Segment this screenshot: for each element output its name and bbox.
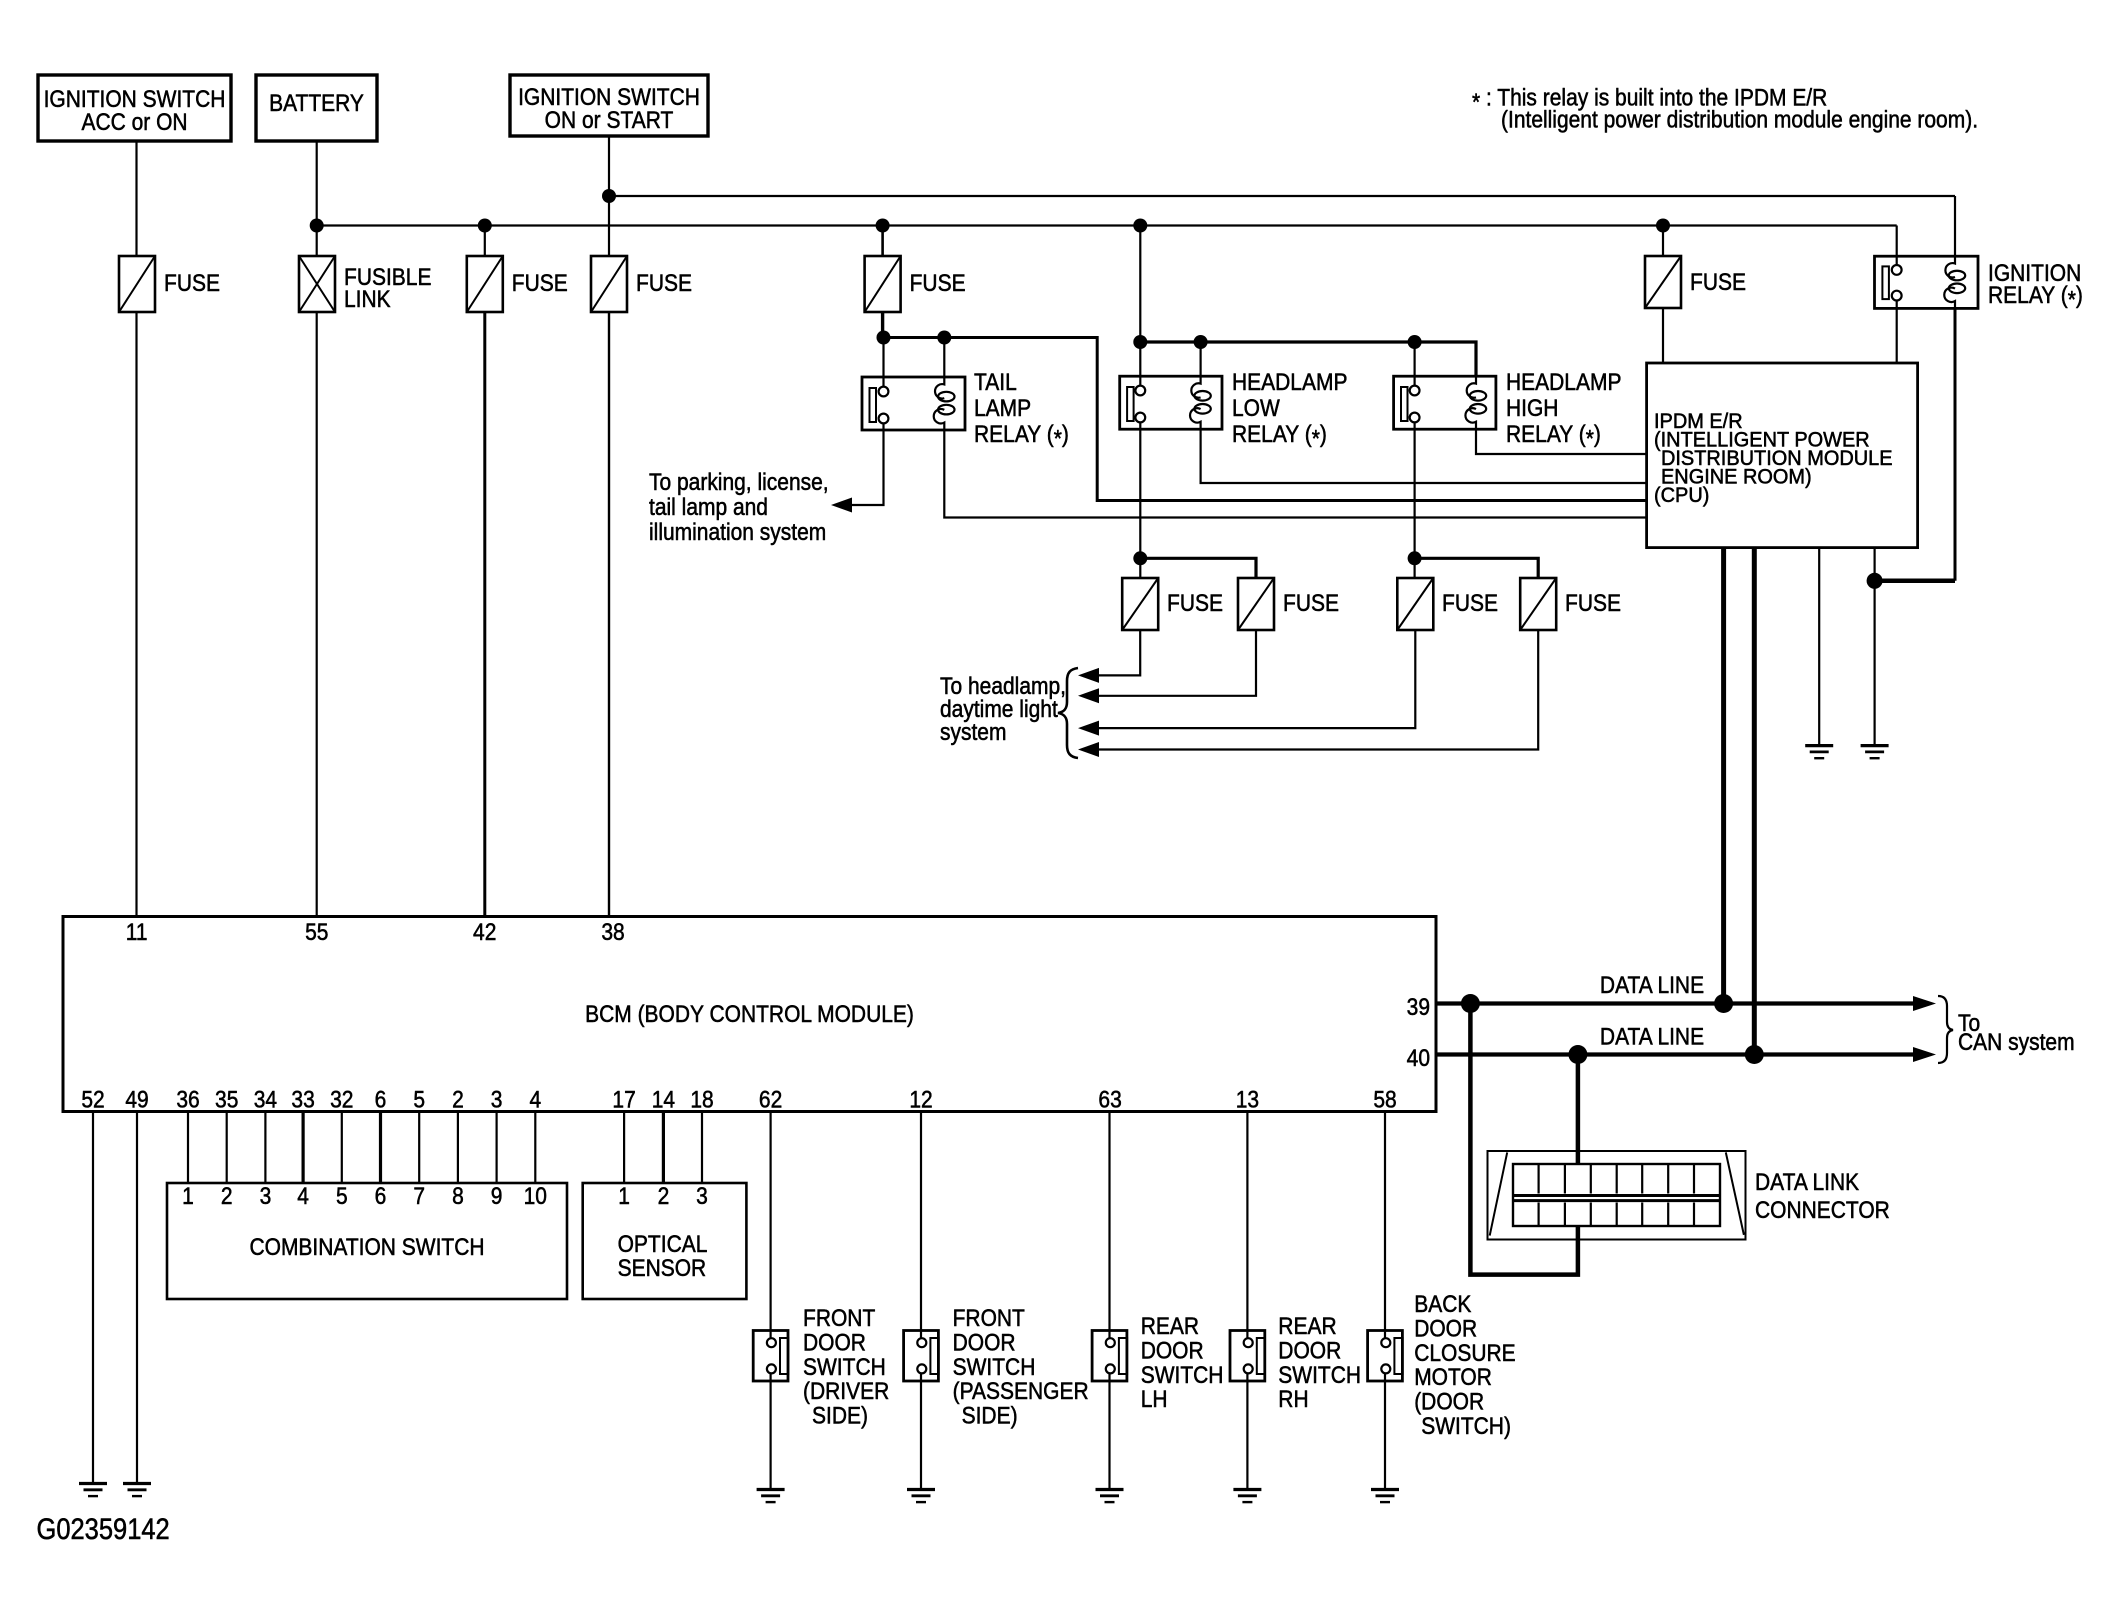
node: junction to second fuse pair (low) [1133,551,1147,565]
wire: tail lamp relay bus y=337.5 [884,338,1647,501]
wire from battery bus to headlamp bus [1139,226,1141,343]
wire: headlamp relay bus y=342 [1140,342,1476,376]
tail relay coil [934,377,945,430]
wire BCM to combination switch pin 2 [226,1112,228,1184]
svg-text:DOOR: DOOR [1278,1337,1341,1364]
svg-text:SENSOR: SENSOR [618,1255,707,1282]
svg-text:REAR: REAR [1141,1313,1199,1340]
svg-text:RH: RH [1278,1386,1308,1413]
wire BCM to combination switch pin 4 [302,1112,305,1184]
svg-text:DATA LINK: DATA LINK [1755,1169,1859,1196]
node: battery bus junction at x=484.8 [478,219,492,233]
wire from IGNITION SWITCH ON/START down to fuse F3 [608,136,610,256]
node: dot 39/IPDM [1714,994,1733,1013]
svg-text:SWITCH): SWITCH) [1421,1413,1511,1440]
svg-text:39: 39 [1407,994,1430,1021]
svg-text:FUSE: FUSE [1167,590,1223,617]
wire IPDM ground pin 2 [1873,548,1875,746]
power source box: BATTERY [256,75,377,141]
node: junction dot ignition-on bus [602,189,616,203]
svg-text:38: 38 [601,919,624,946]
svg-text:RELAY (*​): RELAY (*​) [1232,421,1327,452]
svg-text:(CPU): (CPU) [1654,484,1709,508]
svg-text:SWITCH: SWITCH [1141,1362,1224,1389]
svg-text:tail lamp and: tail lamp and [649,494,768,521]
wire BCM to combination switch pin 10 [534,1112,536,1184]
wire BCM to back door closure motor (door switch) [1384,1112,1386,1339]
svg-text:FUSE: FUSE [512,270,568,297]
arrow DATA LINE 39 to CAN [1913,996,1936,1011]
module: IPDM E/R box [1647,363,1918,548]
svg-text:RELAY (*​): RELAY (*​) [1506,421,1601,452]
svg-text:SIDE): SIDE) [962,1402,1018,1429]
relay: HEADLAMP LOW RELAY box [1120,376,1222,429]
svg-text:3: 3 [696,1183,708,1210]
switch: rear door switch LH [1092,1331,1127,1382]
svg-text:40: 40 [1407,1045,1430,1072]
svg-text:LH: LH [1141,1386,1168,1413]
relay: HEADLAMP HIGH RELAY box [1394,376,1496,429]
svg-text:6: 6 [375,1183,387,1210]
svg-text:system: system [940,719,1006,746]
headlamp high relay coil [1465,376,1476,429]
svg-text:FUSE: FUSE [164,270,220,297]
wire BCM pin 49 to ground [136,1112,138,1484]
relay: TAIL LAMP RELAY box [862,377,965,430]
DLC cell separators [1537,1164,1539,1194]
svg-text:LAMP: LAMP [974,395,1031,422]
svg-text:36: 36 [176,1086,199,1113]
fuse F5 (headlamp low A) [1122,578,1158,630]
fuse F4 (IPDM feed) [1645,256,1681,308]
headlamp high relay contact [1401,387,1408,421]
svg-text:11: 11 [126,919,148,946]
node: headlamp bus junction at high contact [1408,335,1422,349]
arrow headlamp 1 [1078,668,1099,683]
wire from fuse F3t to tail lamp relay bus [881,312,884,338]
svg-text:58: 58 [1373,1086,1396,1113]
wire BCM to optical sensor pin 1 [623,1112,625,1184]
module: COMBINATION SWITCH box [167,1183,567,1299]
wire: headlamp high contact lead [1413,342,1415,385]
connector: DATA LINK CONNECTOR outline [1488,1151,1746,1240]
power source box: IGNITION SWITCH ACC or ON [38,75,231,141]
svg-text:1: 1 [182,1183,194,1210]
svg-text:ON or START: ON or START [545,107,674,134]
svg-text:LINK: LINK [344,286,391,313]
arrow headlamp 2 [1078,688,1099,703]
wire from fusible link to BCM pin 55 [316,312,318,917]
wire BCM to combination switch pin 5 [341,1112,343,1184]
wire BCM to combination switch pin 1 [187,1112,189,1184]
svg-text:FUSE: FUSE [1442,590,1498,617]
arrow headlamp 4 [1078,742,1099,757]
arrow to parking/license system [831,498,852,513]
svg-text:RELAY (*​): RELAY (*​) [1988,282,2083,313]
svg-text:DOOR: DOOR [953,1329,1016,1356]
svg-text:7: 7 [413,1183,425,1210]
wire: branch to fuse row2 #4 [1415,558,1539,578]
wire front door switch (passenger side) to ground [920,1373,922,1489]
svg-text:62: 62 [759,1086,782,1113]
svg-text:42: 42 [473,919,496,946]
fusible link FL [299,256,335,312]
node: tail bus junction at contact [877,331,891,345]
wire BCM to rear door switch RH [1246,1112,1248,1339]
tail relay contact [870,388,877,422]
wire BCM to optical sensor pin 2 [662,1112,665,1184]
wire from IGNITION SWITCH ACC to fuse [135,141,137,256]
svg-text:52: 52 [81,1086,104,1113]
wire from fuse F5 to headlamp arrow 1 [1085,630,1140,675]
fuse F1 (ACC feed) [119,256,155,312]
brace for headlamp arrows [1058,668,1078,758]
svg-text:2: 2 [658,1183,670,1210]
svg-text:DATA LINE: DATA LINE [1600,972,1704,999]
wire BCM to front door switch (driver side) [769,1112,771,1339]
svg-text:(Intelligent power distributio: (Intelligent power distribution module e… [1501,106,1978,133]
svg-text:illumination system: illumination system [649,519,826,546]
wire from battery bus to fuse F3t [881,226,884,257]
fuse F3t (tail lamp relay feed) [865,256,901,312]
svg-text:9: 9 [491,1183,503,1210]
svg-text:SWITCH: SWITCH [803,1354,886,1381]
wire from fuse F3 to BCM pin 38 [608,312,610,917]
wire from fuse F8 to headlamp arrow 4 [1085,630,1538,750]
node: headlamp bus junction at low contact [1133,335,1147,349]
wire from fuse F1 to BCM pin 11 [135,312,137,917]
wire BCM to combination switch pin 3 [264,1112,266,1184]
svg-text:BATTERY: BATTERY [269,90,364,117]
wire BCM to front door switch (passenger side) [920,1112,922,1339]
svg-text:55: 55 [305,919,328,946]
ground pin 49 [123,1482,151,1485]
svg-text:49: 49 [125,1086,148,1113]
svg-text:2: 2 [221,1183,233,1210]
wire: headlamp low contact lead [1139,342,1141,385]
svg-text:FRONT: FRONT [953,1305,1025,1332]
node: battery bus junction at x=316.7 [310,219,324,233]
svg-text:FUSE: FUSE [636,270,692,297]
svg-text:G02359142: G02359142 [37,1512,170,1545]
fuse F8 (headlamp high B) [1520,578,1556,630]
arrow headlamp 3 [1078,721,1099,736]
svg-text:13: 13 [1236,1086,1259,1113]
ignition relay coil [1944,256,1955,308]
svg-text:(DRIVER: (DRIVER [803,1378,889,1405]
wire DLC branch from line 39 (thick L) [1470,1004,1578,1275]
svg-text:17: 17 [612,1086,635,1113]
svg-text:3: 3 [260,1183,272,1210]
svg-text:10: 10 [524,1183,547,1210]
wire: headlamp high contact output down [1413,422,1415,578]
svg-text:12: 12 [909,1086,932,1113]
switch: rear door switch RH [1230,1331,1265,1382]
node: dot 39/DLC branch [1461,994,1480,1013]
svg-text:CAN system: CAN system [1958,1029,2075,1056]
svg-text:RELAY (*​): RELAY (*​) [974,421,1069,452]
svg-text:FUSE: FUSE [1565,590,1621,617]
wire BCM to optical sensor pin 3 [701,1112,703,1184]
svg-text:5: 5 [413,1086,425,1113]
svg-text:HIGH: HIGH [1506,395,1558,422]
fuse F3 (BCM pin 38 feed) [591,256,627,312]
svg-text:4: 4 [297,1183,309,1210]
ground pin 52 [79,1482,107,1485]
wire DATA LINE 39 [1436,1001,1914,1005]
wire DLC branch from line 40 (thick) [1576,1055,1581,1165]
svg-text:35: 35 [215,1086,238,1113]
wire BCM to rear door switch LH [1108,1112,1110,1339]
node: battery bus junction at x=882.6 [876,219,890,233]
svg-text:LOW: LOW [1232,395,1280,422]
wire: branch to fuse row2 #2 [1140,558,1256,578]
ground under IPDM pin 1 [1805,744,1833,747]
wire from battery bus to fuse F4 [1662,226,1664,257]
relay: IGNITION RELAY box [1875,256,1979,308]
power source box: IGNITION SWITCH ON or START [510,75,708,136]
wire BCM to combination switch pin 8 [457,1112,459,1184]
wire IPDM ground pin 1 [1818,548,1820,746]
ground front door switch (passenger side) [907,1488,935,1491]
wire IPDM CAN pin 2 (thick) [1752,548,1757,1055]
svg-text:DOOR: DOOR [1141,1337,1204,1364]
wire rear door switch RH to ground [1246,1373,1248,1489]
wire back door closure motor (door switch) to ground [1384,1373,1386,1489]
fuse F7 (headlamp high A) [1397,578,1433,630]
wire DATA LINE 40 [1436,1052,1914,1056]
ground rear door switch RH [1233,1488,1261,1491]
ignition relay contact [1882,266,1889,299]
wire IPDM CAN pin 1 (thick) [1721,548,1726,1004]
wire from fuse F4 to IPDM [1662,308,1664,363]
arrow DATA LINE 40 to CAN [1913,1047,1936,1062]
wire: headlamp low coil lead [1199,342,1201,376]
svg-text:To parking, license,: To parking, license, [649,469,829,496]
ground under IPDM pin 2 [1861,744,1889,747]
DLC right bevel [1726,1152,1744,1235]
module: BCM (BODY CONTROL MODULE) box [63,917,1436,1112]
wire BCM to combination switch pin 7 [418,1112,420,1184]
svg-text:REAR: REAR [1278,1313,1336,1340]
wire: headlamp low contact output down [1139,422,1141,578]
svg-text:(DOOR: (DOOR [1414,1388,1484,1415]
wire: headlamp high coil output to IPDM [1476,429,1647,454]
wire from battery bus to fuse F2 [484,226,486,257]
wire: top bus y=196 to ignition relay coil [609,195,1955,197]
svg-text:DATA LINE: DATA LINE [1600,1023,1704,1050]
ground rear door switch LH [1096,1488,1124,1491]
headlamp low relay coil [1190,376,1201,429]
svg-text:5: 5 [336,1183,348,1210]
wire coil-ground link y=580.8 [1875,579,1955,584]
svg-text:6: 6 [375,1086,387,1113]
svg-text:MOTOR: MOTOR [1414,1364,1492,1391]
wire from fuse F6 to headlamp arrow 2 [1085,630,1256,696]
wire BCM pin 52 to ground [92,1112,94,1484]
DLC left bevel [1490,1152,1508,1235]
node: junction at IPDM ground pin [1867,573,1883,589]
wire: drop from top bus into ignition relay coil [1954,196,1956,256]
switch: back door closure motor (door switch) [1368,1331,1403,1382]
headlamp low relay contact [1127,387,1134,421]
svg-text:ACC or ON: ACC or ON [81,109,187,136]
wire: battery bus y=225.5 [317,224,1897,226]
svg-text:FUSE: FUSE [1690,269,1746,296]
node: battery bus junction at x=1140.3 [1133,219,1147,233]
svg-text:BCM (BODY CONTROL MODULE): BCM (BODY CONTROL MODULE) [585,1001,914,1028]
svg-text:BACK: BACK [1414,1291,1471,1318]
svg-text:1: 1 [618,1183,630,1210]
node: junction to second fuse pair (high) [1408,551,1422,565]
svg-text:FRONT: FRONT [803,1305,875,1332]
wire: tail relay contact output to arrow [838,423,884,505]
ground front door switch (driver side) [757,1488,785,1491]
svg-text:CONNECTOR: CONNECTOR [1755,1197,1890,1224]
svg-text:18: 18 [690,1086,713,1113]
ground back door closure motor (door switch) [1371,1488,1399,1491]
svg-text:34: 34 [254,1086,277,1113]
svg-text:OPTICAL: OPTICAL [618,1231,708,1258]
wire: tail relay coil lead [943,338,945,378]
fuse F2 (BCM pin 42 feed) [467,256,503,312]
svg-text:TAIL: TAIL [974,369,1017,396]
DLC center band [1513,1194,1720,1197]
wire from BATTERY to fusible link [316,141,318,256]
svg-text:3: 3 [491,1086,503,1113]
wire: headlamp low coil output to IPDM [1201,429,1647,483]
svg-text:SWITCH: SWITCH [953,1354,1036,1381]
svg-text:HEADLAMP: HEADLAMP [1506,369,1621,396]
svg-text:63: 63 [1098,1086,1121,1113]
svg-text:DOOR: DOOR [803,1329,866,1356]
node: tail bus junction at coil [937,331,951,345]
svg-text:SWITCH: SWITCH [1278,1362,1361,1389]
switch: front door switch (driver side) [753,1331,788,1382]
svg-text:HEADLAMP: HEADLAMP [1232,369,1347,396]
wire ignition relay contact to IPDM top [1896,300,1898,363]
fuse F6 (headlamp low B) [1238,578,1274,630]
node: dot 40/DLC branch [1568,1045,1587,1064]
wire rear door switch LH to ground [1108,1373,1110,1489]
svg-text:33: 33 [291,1086,314,1113]
DLC inner shell [1513,1164,1720,1226]
node: headlamp bus junction at low coil [1194,335,1208,349]
svg-text:DOOR: DOOR [1414,1315,1477,1342]
wire from fuse F7 to headlamp arrow 3 [1085,630,1415,728]
wire: tail relay coil output to IPDM [944,430,1646,518]
node: dot 40/IPDM [1745,1045,1764,1064]
wire front door switch (driver side) to ground [769,1373,771,1489]
svg-text:(PASSENGER: (PASSENGER [953,1378,1089,1405]
svg-text:CLOSURE: CLOSURE [1414,1340,1515,1367]
svg-text:SIDE): SIDE) [812,1402,868,1429]
wire BCM to combination switch pin 9 [496,1112,498,1184]
wire from fuse F2 to BCM pin 42 [483,312,486,917]
svg-text:14: 14 [652,1086,675,1113]
wire: tail relay contact lead [882,338,884,387]
wire: battery bus drop to ignition relay contact [1896,226,1898,266]
svg-text:2: 2 [452,1086,464,1113]
svg-text:FUSE: FUSE [1283,590,1339,617]
svg-text:32: 32 [330,1086,353,1113]
svg-text:8: 8 [452,1183,464,1210]
node: battery bus junction at x=1663 [1656,219,1670,233]
svg-text:4: 4 [529,1086,541,1113]
svg-text:COMBINATION SWITCH: COMBINATION SWITCH [249,1234,484,1261]
module: OPTICAL SENSOR box [583,1183,747,1299]
svg-text:FUSE: FUSE [910,270,966,297]
wire BCM to combination switch pin 6 [379,1112,382,1184]
brace To CAN system [1938,996,1953,1063]
switch: front door switch (passenger side) [904,1331,939,1382]
wire ignition relay coil down [1954,308,1957,580]
